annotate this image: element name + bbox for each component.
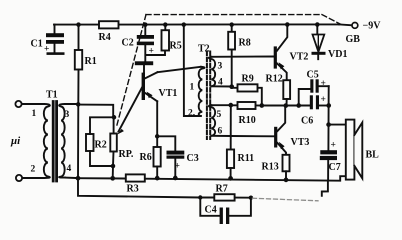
svg-text:+: + [331,141,336,151]
diode VD1 [312,25,348,61]
wire T2 tap4 lead [211,85,231,87]
battery terminal GB [339,21,381,45]
svg-text:−9V: −9V [363,21,382,32]
resistor R8 [228,25,251,87]
node C5 branch [296,103,301,108]
wire VT1 emitter down [156,101,158,147]
node R7 C4 left [198,195,202,199]
capacitor C2 [122,25,155,62]
node R2 RP top [112,115,117,120]
label T1 [46,90,58,101]
svg-text:GB: GB [346,34,361,45]
pin 2 T2 [188,109,195,119]
pin 1 T1 [32,109,37,119]
wire output mid rail [262,105,310,107]
svg-text:C4: C4 [205,205,217,216]
resistor R4 [99,21,119,43]
svg-text:2.: 2. [188,109,195,119]
resistor R7 [214,184,234,201]
dashed enclosure right diagonal [322,15,341,25]
node R7 C4 right [249,196,253,200]
svg-text:R11: R11 [238,153,255,164]
node T1 secondary top junction [76,102,81,107]
svg-text:R8: R8 [239,38,251,49]
svg-text:C3: C3 [187,153,199,164]
svg-text:3: 3 [65,110,70,120]
node bottom rail left [76,176,81,181]
capacitor C4 [200,198,251,225]
svg-text:R9: R9 [242,74,254,85]
node R11 bottom [228,176,233,181]
label T2 [198,44,210,55]
pin 3 T1 [65,110,70,120]
svg-text:VT3: VT3 [291,137,310,148]
svg-text:3: 3 [218,62,223,72]
node C3 bottom [173,176,178,181]
wire T2 tap6 to VT3 base [211,135,274,138]
svg-text:R3: R3 [127,184,139,195]
svg-text:1: 1 [190,83,195,93]
wire main left vertical [77,70,80,179]
wire T2 tap3 to VT2 base [211,56,274,58]
node output VT3 collector [283,103,288,108]
node C6 right [326,103,331,108]
capacitor C1 [31,25,65,55]
transformer T1 [22,102,78,182]
node tap5 R10 R11 [228,103,233,108]
svg-text:R7: R7 [216,184,228,195]
wire bottom rail [78,176,346,181]
wire T2 tap5 lead [211,104,231,106]
wire top supply rail [54,23,339,25]
terminal input bottom [16,175,22,181]
terminal input top [15,101,21,107]
wire lower ground rail [78,178,251,198]
svg-text:VT2: VT2 [290,52,309,63]
svg-text:R1: R1 [85,56,97,67]
pin 1 T2 [190,83,195,93]
svg-text:T1: T1 [46,90,58,101]
wire R2 RP top loop [78,105,114,134]
node R2 RP bottom [111,164,116,169]
resistor R13 [262,155,290,180]
capacitor C3 [167,151,199,178]
svg-text:R12: R12 [266,74,283,85]
svg-text:C6: C6 [301,116,313,127]
resistor R9 [232,74,262,106]
svg-text:5: 5 [217,110,222,120]
label ui [10,135,21,147]
svg-text:C1: C1 [31,39,43,50]
svg-text:2: 2 [31,165,36,175]
pin 4 T2 [218,78,223,88]
resistor R6 [140,147,161,178]
svg-text:+: + [175,162,180,172]
node R6 bottom [155,176,160,181]
node rail dots top [76,22,319,27]
node C2-base junction bar [135,61,153,65]
capacitor C6 [301,95,329,127]
wire to speaker top [329,124,346,126]
dashed enclosure top [146,14,322,16]
capacitor C7 [320,141,341,181]
svg-text:T2: T2 [198,44,210,55]
svg-text:+: + [321,79,326,89]
transistor VT1 [142,65,178,101]
svg-text:C5: C5 [307,70,319,81]
node R13 bottom [284,178,289,183]
wire ground step to rail [322,181,328,196]
wire rail to T2 primary bottom [184,25,201,116]
svg-text:1: 1 [32,109,37,119]
resistor R1 [75,25,97,70]
pin 2 T1 [31,165,36,175]
node R9 R10 output [259,103,264,108]
resistor R12 [266,74,291,106]
svg-text:R6: R6 [140,152,152,163]
svg-text:R5: R5 [170,41,182,52]
pin 6 T2 [218,127,223,137]
node tap4 R8 R9 [229,84,234,89]
dashed enclosure left diagonal [116,15,146,128]
resistor R3 [126,174,145,194]
svg-text:+: + [321,95,326,105]
svg-text:+: + [44,45,49,55]
wire R2 RP bottom loop [90,151,114,178]
svg-text:C2: C2 [122,38,134,49]
resistor R2 [86,134,107,151]
svg-text:BL: BL [366,150,380,161]
pin 5 T2 [217,110,222,120]
svg-text:4: 4 [67,164,72,174]
svg-text:R10: R10 [239,115,256,126]
resistor R5 [146,25,182,55]
resistor R11 [227,150,254,179]
node speaker branch [326,122,331,127]
wire VT1 collector to T2 tap1 [158,67,201,72]
wire tap5 down to R11 [230,105,232,149]
node R2 RP rail [110,176,115,181]
dashed faint ground line [253,198,319,201]
pin 4 T1 [67,164,72,174]
potentiometer RP [110,87,142,161]
transformer T2 [199,52,215,140]
wire emitter to C3 [157,136,175,150]
speaker BL [346,120,379,180]
capacitor C5 [299,70,329,106]
svg-text:R2: R2 [95,140,107,151]
svg-text:C7: C7 [329,162,341,173]
wire output vertical [327,86,329,150]
transistor VT3 [274,106,309,155]
transistor VT2 [274,25,309,81]
resistor R10 [231,102,262,126]
svg-text:VD1: VD1 [328,49,347,60]
svg-text:R13: R13 [262,162,279,173]
svg-text:μi: μi [10,135,21,147]
node emitter branch [155,134,160,139]
svg-text:VT1: VT1 [159,88,178,99]
svg-text:R4: R4 [99,32,111,43]
svg-text:RP.: RP. [119,149,134,160]
pin 3 T2 [218,62,223,72]
